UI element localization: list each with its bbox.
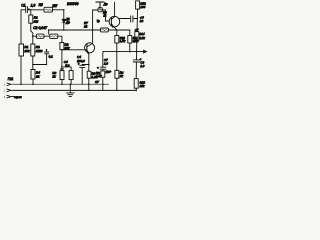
svg-text:10k: 10k (65, 46, 70, 50)
svg-text:Др: Др (103, 2, 108, 6)
wire corner down to C6 (102, 52, 104, 91)
wire x62 vertical (61, 50, 63, 71)
resistor R12 top (136, 1, 140, 9)
wire T1 emitter down (88, 53, 90, 65)
wire output horizontal y55.8 (103, 51, 144, 53)
resistor R2 (29, 15, 33, 23)
svg-text:C2 0,047: C2 0,047 (33, 26, 47, 30)
capacitor C1 (26, 6, 28, 12)
junction dots (28, 8, 30, 10)
svg-text:16: 16 (140, 19, 144, 23)
svg-text:1,5k: 1,5k (96, 74, 102, 78)
resistor box on base chain (60, 43, 64, 50)
svg-text:10k: 10k (24, 49, 29, 53)
node stub (48, 30, 50, 34)
resistor R3 (31, 44, 35, 56)
choke symbol (96, 1, 104, 3)
wire corner to R11 (129, 30, 131, 36)
wire T2 emitter (114, 27, 117, 36)
rail upper (12, 83, 109, 85)
svg-text:1k: 1k (36, 74, 40, 78)
svg-text:1,5k: 1,5k (120, 39, 126, 43)
resistor R14 (135, 32, 139, 41)
resistor R11 (128, 36, 132, 44)
capacitor C5h (131, 16, 133, 22)
wire C5h branch (119, 18, 138, 20)
capacitor C8 (133, 60, 139, 62)
wire T1 base (62, 49, 87, 51)
resistor R box (50, 34, 58, 38)
resistor R10 (115, 36, 119, 44)
svg-text:27k: 27k (139, 84, 145, 88)
svg-text:1k: 1k (52, 75, 56, 79)
svg-text:1k: 1k (120, 74, 124, 78)
svg-text:1,0: 1,0 (104, 61, 108, 65)
transistor T2 (109, 16, 120, 27)
resistor box B (69, 71, 73, 80)
svg-text:1M: 1M (34, 19, 39, 23)
wire T1 collector vertical (92, 10, 94, 44)
svg-text:Тр: Тр (97, 19, 101, 23)
resistor R13 bottom (134, 79, 138, 89)
resistor R9b (101, 71, 105, 77)
svg-text:1,0: 1,0 (140, 64, 144, 68)
diode D1 (63, 10, 65, 30)
electrolytic box on top wire (98, 8, 102, 12)
svg-text:Д9: Д9 (65, 21, 70, 25)
right vertical rail x137.2 (136, 9, 137, 90)
terminal 3 (7, 95, 14, 98)
svg-text:100: 100 (140, 5, 145, 9)
resistor R8 (87, 71, 91, 78)
svg-text:экран: экран (14, 95, 22, 99)
svg-text:C1: C1 (21, 3, 25, 7)
wire mid horizontal y30 (49, 29, 130, 31)
svg-text:2,2k: 2,2k (138, 36, 145, 40)
svg-text:1k: 1k (84, 25, 88, 29)
capacitor C3 (45, 52, 49, 54)
capacitor C2 box (37, 34, 45, 38)
wire branch y36.7 (33, 36, 62, 42)
capacitor C6 (100, 67, 106, 69)
wire top horizontal (21, 9, 64, 11)
svg-text:R5: R5 (39, 3, 43, 7)
wire top-right to T2 base (93, 10, 110, 21)
svg-text:ВЭ549: ВЭ549 (67, 2, 79, 6)
resistor box A (60, 71, 64, 80)
resistor box h2 (101, 28, 109, 32)
resistor R15 (115, 70, 119, 78)
resistor R4 (31, 70, 35, 80)
svg-text:C3: C3 (39, 49, 43, 53)
capacitor marks above box A (60, 68, 63, 70)
wire R3 to R4 (32, 56, 34, 70)
wire branch C3 L-shape (33, 50, 47, 65)
wire R10 down (116, 43, 118, 90)
resistor R5 (44, 7, 53, 12)
transistor T1 (85, 43, 95, 53)
svg-text:0,1: 0,1 (49, 55, 54, 59)
terminal 2 (7, 89, 11, 92)
terminal 1 (7, 83, 11, 86)
svg-text:1,0: 1,0 (31, 3, 36, 7)
svg-text:Гн1: Гн1 (8, 77, 14, 81)
rail lower (12, 89, 136, 91)
wire y66.9 link (62, 67, 71, 71)
wire R4 to rail (21, 56, 33, 84)
resistor R1 (19, 44, 24, 56)
svg-text:470*: 470* (105, 70, 112, 74)
ground (67, 84, 74, 96)
wire R2 to jog (31, 23, 33, 44)
wire vertical to R2 (30, 10, 32, 15)
capacitor C5 electrolytic (82, 65, 89, 85)
wire left vertical (20, 10, 22, 44)
wire R11 down (129, 43, 131, 52)
output arrow (143, 50, 147, 53)
wire T2 collector (114, 2, 116, 16)
